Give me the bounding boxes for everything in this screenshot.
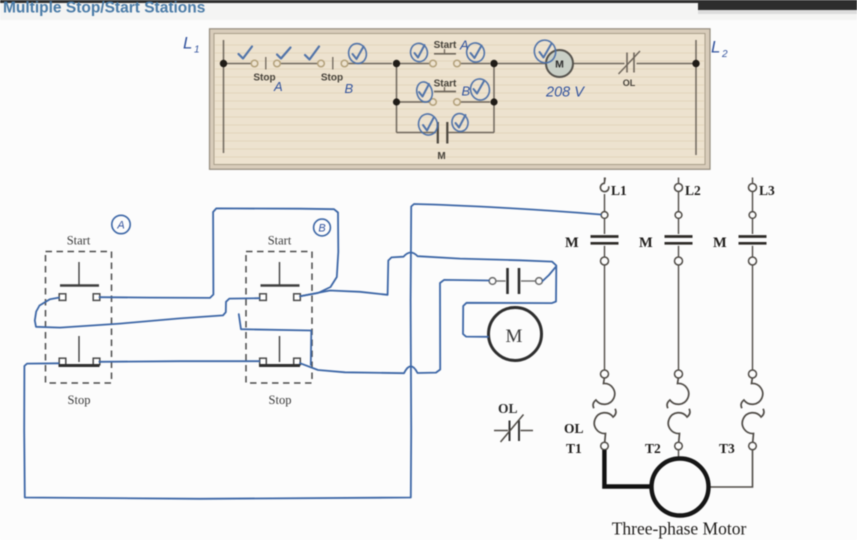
svg-text:2: 2 [721,49,728,60]
svg-text:Three-phase Motor: Three-phase Motor [612,519,747,539]
svg-text:M: M [565,235,579,251]
svg-text:Start: Start [67,234,91,248]
svg-text:Multiple Stop/Start Stations: Multiple Stop/Start Stations [3,0,205,17]
svg-text:B: B [462,84,471,99]
svg-text:Stop: Stop [68,393,91,407]
svg-text:L: L [711,38,720,57]
svg-text:Stop: Stop [269,393,292,407]
svg-text:Start: Start [268,234,292,248]
svg-text:L3: L3 [759,183,775,198]
svg-text:A: A [273,79,283,94]
svg-text:B: B [345,81,354,96]
svg-text:OL: OL [498,401,518,416]
svg-text:M: M [713,235,727,251]
svg-text:1: 1 [194,45,200,56]
svg-text:OL: OL [623,78,636,88]
svg-text:M: M [639,235,653,251]
svg-text:T1: T1 [566,441,582,456]
svg-text:L: L [183,34,192,53]
svg-text:208 V: 208 V [545,85,585,101]
svg-text:M: M [555,59,564,71]
svg-text:Start: Start [434,79,457,90]
svg-text:B: B [318,223,325,235]
svg-text:OL: OL [564,421,584,436]
svg-text:M: M [506,326,523,347]
svg-text:A: A [116,220,124,232]
svg-text:Start: Start [434,40,457,51]
svg-text:L2: L2 [685,183,701,198]
svg-text:M: M [437,151,445,162]
svg-text:T2: T2 [645,441,661,456]
svg-text:Stop: Stop [321,73,343,84]
svg-text:A: A [459,38,469,53]
svg-text:Stop: Stop [253,73,275,84]
svg-text:T3: T3 [719,441,735,456]
svg-text:L1: L1 [611,183,627,198]
